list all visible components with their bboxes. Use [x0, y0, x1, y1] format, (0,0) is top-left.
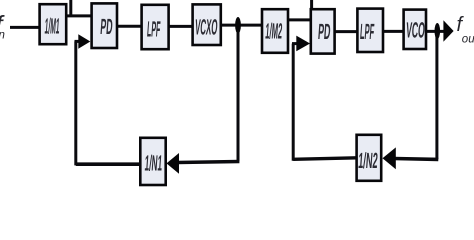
wire 1/M2 to PD2	[288, 18, 311, 21]
wire junction stub up from node between 1/M1 and PD	[69, 0, 72, 17]
block PD (stage 1)	[92, 3, 117, 48]
node A junction dot after VCXO	[235, 17, 241, 34]
block 1/N1	[140, 138, 165, 185]
wire right-stage vertical up to PD2 feedback input	[292, 44, 295, 161]
svg-text:PD: PD	[317, 19, 331, 44]
block LPF (stage 2)	[357, 9, 383, 52]
block PD (stage 2)	[311, 9, 335, 53]
wire node A down to N1 feedback	[237, 25, 240, 161]
block 1/M1	[40, 4, 67, 44]
node fin input label	[0, 11, 6, 42]
svg-text:out: out	[462, 34, 474, 46]
wire fin to 1/M1	[10, 26, 40, 29]
svg-text:1/M2: 1/M2	[265, 19, 284, 44]
block 1/M2	[262, 9, 288, 53]
node B junction dot after VCO	[435, 23, 441, 39]
svg-text:LPF: LPF	[359, 19, 375, 44]
wire left vertical up to PD1 feedback input	[74, 41, 77, 165]
wire LPF to VCXO	[169, 25, 192, 28]
wire N1 feedback right segment	[178, 162, 240, 163]
arrowhead feedback into PD1	[78, 34, 90, 48]
block 1/N2	[357, 135, 382, 181]
svg-text:LPF: LPF	[146, 17, 161, 42]
svg-text:in: in	[0, 30, 5, 42]
arrowhead into 1/N2	[383, 147, 396, 169]
svg-text:VCO: VCO	[405, 18, 426, 43]
svg-text:VCXO: VCXO	[194, 15, 218, 40]
block VCXO	[193, 4, 221, 45]
node fout output label	[457, 14, 474, 46]
arrowhead feedback into PD2	[296, 36, 310, 52]
wire 1/N1 output to left corner	[76, 162, 141, 166]
svg-text:1/N2: 1/N2	[358, 148, 379, 173]
arrowhead into 1/N1	[167, 153, 180, 174]
wire LPF2 to VCO	[383, 30, 403, 33]
wire VCO to output	[427, 30, 445, 33]
wire VCXO to 1/M2	[221, 24, 263, 27]
svg-text:PD: PD	[100, 14, 114, 39]
wire PD2 to LPF2	[335, 30, 357, 33]
wire junction stub above PD2	[310, 0, 313, 9]
wire node B down to N2 feedback	[435, 31, 438, 159]
wire N2 feedback right segment	[394, 157, 438, 161]
wire stub into PD1 feedback arrow	[75, 40, 81, 43]
wire PD to LPF	[117, 25, 141, 28]
arrowhead output fout	[443, 20, 453, 41]
wire 1/N2 output to left corner	[293, 158, 357, 160]
wire 1/M1 to PD	[66, 14, 91, 17]
wire stub into PD2 feedback arrow	[292, 42, 298, 45]
svg-text:1/N1: 1/N1	[144, 151, 163, 176]
block VCO	[404, 10, 426, 49]
svg-text:1/M1: 1/M1	[44, 14, 61, 39]
block LPF (stage 1)	[142, 5, 169, 49]
